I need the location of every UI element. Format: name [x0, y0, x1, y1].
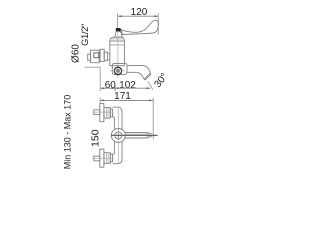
- aerator tip: [148, 133, 151, 137]
- extension tick left of 171: [99, 98, 101, 104]
- body collar line: [110, 44, 125, 46]
- bottom elbow inner: [113, 141, 115, 154]
- pivot circle inner: [115, 132, 122, 139]
- spout mount block: [112, 63, 127, 74]
- spout bar inner line: [125, 133, 148, 135]
- leader line for diameter 60: [84, 66, 100, 68]
- spout tube top (side view): [127, 65, 150, 73]
- svg-text:30°: 30°: [152, 71, 170, 90]
- aerator face: [144, 73, 151, 80]
- top escutcheon: [100, 104, 104, 122]
- top nut facets: [106, 108, 108, 119]
- dim line 120: [118, 15, 159, 17]
- svg-text:Ø60: Ø60: [70, 44, 81, 63]
- svg-text:60: 60: [105, 80, 117, 91]
- top elbow inner: [113, 117, 115, 130]
- outlet end cap: [144, 73, 150, 79]
- bottom escutcheon: [100, 149, 104, 167]
- G1/2 socket detail: [94, 53, 99, 58]
- svg-text:102: 102: [119, 80, 136, 91]
- extension line left of 120: [117, 13, 119, 27]
- top flange centerline: [92, 111, 114, 113]
- pivot center cross: [116, 133, 120, 137]
- dim line 60/102: [100, 87, 150, 89]
- outlet extension line (30 deg): [148, 81, 153, 90]
- top connector: [110, 109, 112, 117]
- bottom flange centerline: [92, 158, 114, 160]
- bottom elbow outer: [113, 141, 123, 163]
- pivot circle outer: [111, 128, 125, 142]
- top wall pipe stub: [94, 110, 100, 115]
- spout tube bottom: [127, 72, 144, 79]
- lever neck: [115, 32, 123, 38]
- spout bar top edge: [125, 131, 148, 133]
- spout centerline (dark): [111, 134, 158, 136]
- bottom nut: [104, 153, 110, 164]
- knurled screw (side view): [114, 67, 121, 74]
- svg-text:Min 130 - Max 170: Min 130 - Max 170: [63, 95, 73, 170]
- screw crosshair: [110, 70, 124, 72]
- separator tick 60/102: [114, 86, 116, 91]
- top elbow outer: [113, 107, 123, 129]
- body cylinder: [110, 41, 125, 66]
- bottom connector: [110, 154, 112, 162]
- cartridge collar step: [111, 38, 123, 40]
- body nut: [104, 52, 107, 60]
- body centerline: [117, 31, 119, 78]
- eccentric connector: [100, 49, 104, 61]
- nut-body link: [108, 54, 110, 60]
- escutcheon flange (side view): [91, 50, 100, 63]
- wall pipe stub (side view): [88, 54, 91, 60]
- vertical centerline of front view: [117, 107, 119, 165]
- bottom wall pipe stub: [94, 156, 100, 161]
- svg-text:150: 150: [90, 129, 102, 147]
- bottom nut facets: [106, 153, 108, 164]
- svg-text:G1/2": G1/2": [80, 24, 91, 46]
- dim line 171: [100, 99, 153, 101]
- lever handle: [121, 20, 158, 34]
- lever cap (dark): [116, 28, 121, 31]
- extension line left of 60: [99, 67, 101, 91]
- extension line right of 120: [157, 13, 159, 34]
- top nut: [104, 108, 110, 119]
- spout bar end: [147, 132, 149, 138]
- cartridge dome: [110, 37, 125, 41]
- extension line right of 171: [152, 98, 154, 140]
- spout bar bottom edge: [125, 137, 148, 139]
